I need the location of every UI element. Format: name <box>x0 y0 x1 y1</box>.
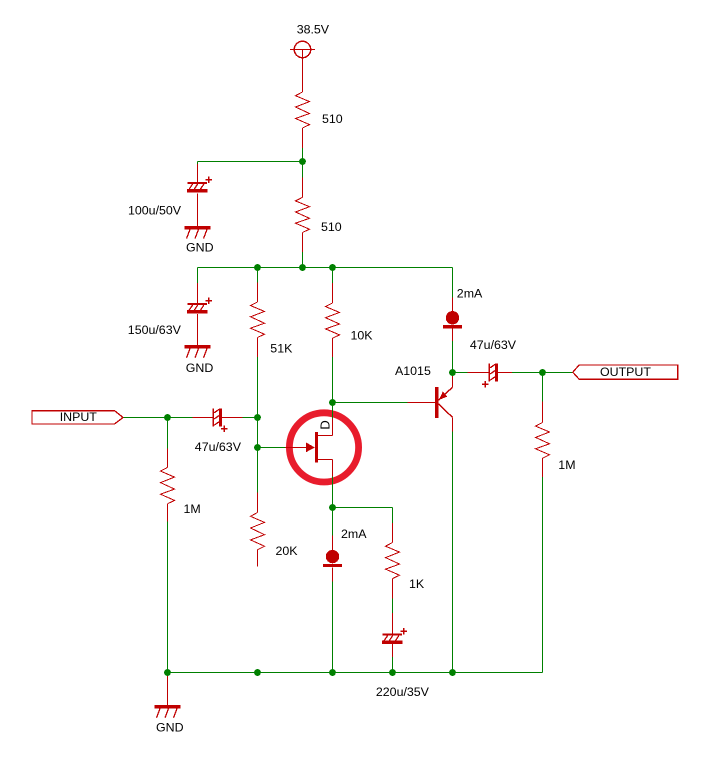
svg-text:1M: 1M <box>558 458 575 472</box>
svg-text:GND: GND <box>186 361 214 375</box>
svg-text:47u/63V: 47u/63V <box>470 338 517 352</box>
svg-text:2mA: 2mA <box>457 286 483 300</box>
svg-text:510: 510 <box>322 112 343 126</box>
svg-text:1M: 1M <box>184 502 201 516</box>
svg-text:100u/50V: 100u/50V <box>128 204 182 218</box>
svg-text:47u/63V: 47u/63V <box>195 440 242 454</box>
svg-text:20K: 20K <box>276 544 299 558</box>
svg-text:51K: 51K <box>270 341 293 355</box>
svg-text:A1015: A1015 <box>395 364 431 378</box>
svg-text:2mA: 2mA <box>341 527 367 541</box>
svg-text:1K: 1K <box>409 577 425 591</box>
svg-text:150u/63V: 150u/63V <box>128 323 182 337</box>
svg-text:38.5V: 38.5V <box>297 23 330 37</box>
svg-text:510: 510 <box>321 220 342 234</box>
svg-text:OUTPUT: OUTPUT <box>600 365 651 379</box>
svg-text:GND: GND <box>186 241 214 255</box>
svg-text:INPUT: INPUT <box>60 410 98 424</box>
svg-text:GND: GND <box>156 721 184 735</box>
svg-text:220u/35V: 220u/35V <box>376 685 430 699</box>
svg-text:10K: 10K <box>351 328 374 342</box>
svg-text:D: D <box>318 420 333 429</box>
